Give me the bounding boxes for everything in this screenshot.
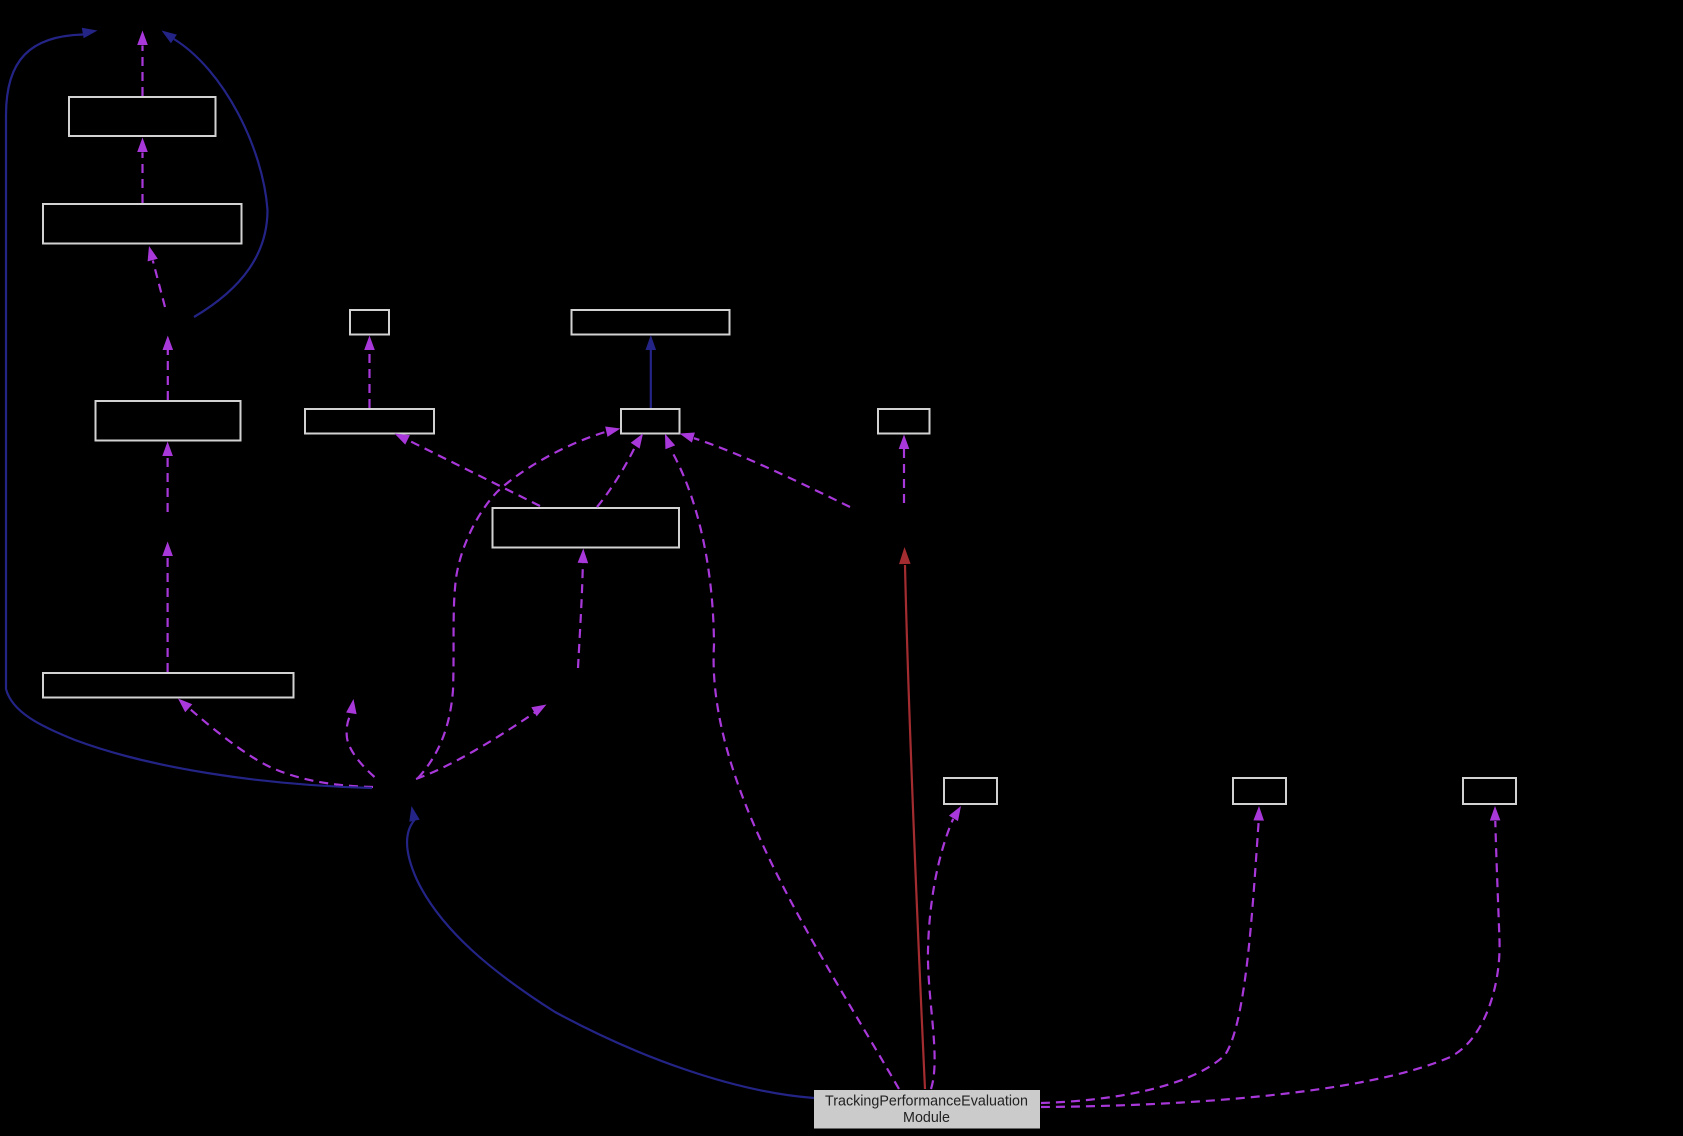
svg-text:TrackingPerformanceEvaluation: TrackingPerformanceEvaluation — [825, 1094, 1028, 1110]
svg-text:Module: Module — [903, 1110, 950, 1126]
